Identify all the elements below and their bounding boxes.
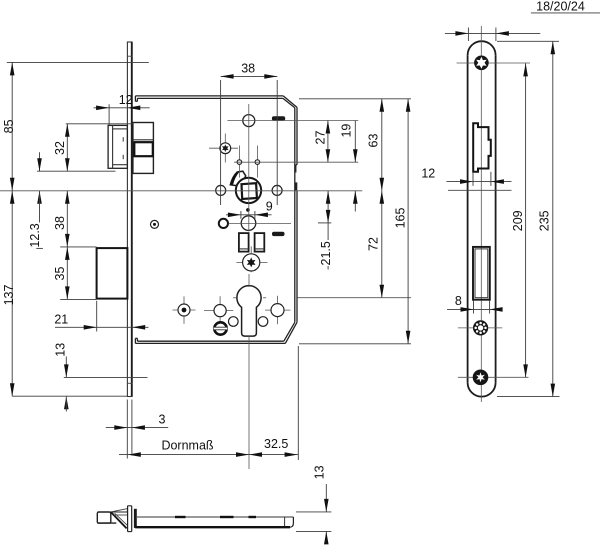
svg-text:18/20/24: 18/20/24 [536, 0, 585, 13]
svg-text:Dornmaß: Dornmaß [161, 439, 213, 453]
dim 3 [106, 400, 168, 459]
svg-text:72: 72 [366, 237, 380, 251]
faceplate strip [127, 42, 133, 397]
dim 209 [511, 63, 528, 377]
svg-text:137: 137 [2, 285, 16, 306]
svg-text:32.5: 32.5 [264, 437, 288, 451]
dim 21.5 [318, 191, 333, 270]
svg-text:235: 235 [538, 210, 552, 231]
dim Dornmass and 32.5 [119, 346, 298, 460]
svg-text:8: 8 [455, 294, 462, 308]
dim 35 [53, 247, 97, 300]
follower flank hole right [272, 185, 282, 195]
middle screw torx [458, 320, 502, 335]
dim 18/20/24 [445, 0, 600, 41]
dim 12.3 [28, 152, 43, 248]
svg-text:63: 63 [367, 134, 381, 148]
latch bolt head (side) [108, 125, 127, 168]
dim 13 bottom [296, 465, 331, 544]
dim 165 [299, 99, 411, 344]
svg-text:12: 12 [421, 166, 435, 180]
9mm hole [241, 216, 256, 231]
bold small bush [219, 219, 228, 228]
lock case outline [135, 96, 297, 344]
bottom screw torx [458, 370, 529, 386]
slotted screw [214, 322, 228, 334]
dim 19 [340, 121, 358, 212]
svg-text:13: 13 [53, 343, 67, 357]
follower flank hole left [216, 185, 226, 195]
follower horizontal centre line [0, 190, 362, 192]
bottom view case front wall [134, 509, 137, 528]
dim 38 left [53, 191, 97, 247]
svg-text:12.3: 12.3 [28, 223, 42, 247]
svg-text:38: 38 [53, 216, 67, 230]
top slot [272, 116, 285, 121]
svg-text:3: 3 [159, 412, 166, 426]
deadbolt slot front [473, 247, 490, 300]
faceplate front view [468, 26, 496, 402]
follower (nut) [236, 178, 261, 203]
small hole b [258, 317, 268, 327]
svg-text:32: 32 [53, 141, 67, 155]
small hole a [229, 317, 239, 327]
svg-text:19: 19 [340, 124, 354, 138]
bottom view case body [135, 517, 293, 527]
centre line vertical [248, 104, 250, 469]
dim 21 [54, 301, 148, 332]
spring slots [239, 233, 264, 252]
svg-text:27: 27 [313, 131, 327, 145]
lower-left rivet [173, 296, 196, 324]
svg-text:85: 85 [2, 119, 16, 133]
dim 12 latch [94, 93, 150, 125]
dim 72 [298, 191, 412, 298]
detent lever [230, 171, 245, 185]
svg-text:9: 9 [266, 199, 273, 213]
small guide holes [237, 146, 260, 178]
bottom view latch head [97, 509, 127, 529]
dim 9 [226, 199, 273, 219]
top fixing hole [243, 115, 255, 127]
svg-text:12: 12 [119, 93, 133, 107]
dim 63 [299, 99, 411, 191]
upper star rivet [209, 134, 238, 163]
dim 85 [2, 62, 149, 190]
svg-text:209: 209 [511, 210, 525, 231]
dim 38 top [221, 61, 278, 205]
svg-text:21.5: 21.5 [319, 241, 333, 265]
latch bolt tail in case [133, 123, 154, 174]
dim 137 [2, 191, 127, 396]
top screw torx [457, 56, 530, 71]
case rivet [151, 220, 159, 228]
dim 8 [447, 294, 503, 314]
pin dot [246, 208, 250, 212]
latch cutout front [473, 123, 491, 172]
deadbolt head [97, 248, 128, 299]
dim 27 [227, 121, 358, 163]
cylinder flank hole right [265, 296, 290, 324]
svg-text:165: 165 [393, 208, 407, 229]
dim 32 [37, 124, 133, 171]
lower star rivet [236, 246, 267, 272]
svg-text:21: 21 [54, 312, 68, 326]
svg-text:38: 38 [241, 61, 255, 75]
dim 12 front [421, 166, 511, 190]
euro profile cylinder hole [237, 286, 261, 336]
dim 235 [497, 41, 560, 396]
bottom view faceplate bar [128, 506, 132, 532]
svg-text:35: 35 [53, 267, 67, 281]
svg-text:13: 13 [313, 465, 327, 479]
dim 13 left [53, 343, 147, 412]
cylinder flank hole left [204, 296, 233, 322]
right mid slot [272, 232, 285, 236]
